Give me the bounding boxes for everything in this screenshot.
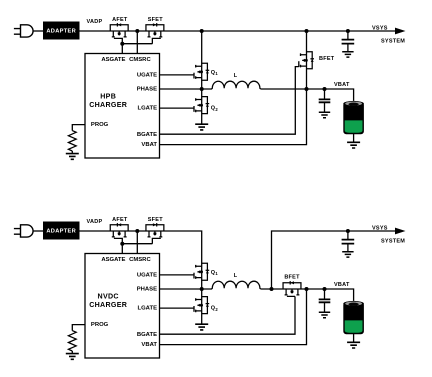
wire UGATE	[160, 274, 195, 276]
wire resistor to ground	[71, 151, 73, 153]
svg-text:Q1: Q1	[211, 70, 219, 76]
svg-text:SYSTEM: SYSTEM	[381, 38, 405, 44]
wire Q2 drain to ground	[201, 89, 203, 124]
svg-text:UGATE: UGATE	[137, 272, 157, 278]
wire LGATE	[160, 307, 195, 309]
wire cap to ground	[347, 44, 349, 52]
node VSYS cap junction	[346, 229, 350, 233]
inductor L	[202, 281, 261, 289]
AC plug	[14, 25, 33, 37]
wire resistor to ground	[71, 351, 73, 353]
resistor R1 PROG	[68, 131, 76, 151]
node CMSRC junction	[135, 229, 139, 233]
wire cap to ground	[347, 244, 349, 252]
ground battery	[347, 342, 360, 348]
ground resistor	[66, 154, 79, 160]
ground battery	[347, 142, 360, 148]
battery BT2	[343, 301, 364, 334]
charger block U2 NVDC	[85, 254, 160, 359]
svg-text:ASGATE: ASGATE	[101, 257, 125, 263]
svg-text:VSYS: VSYS	[372, 25, 388, 31]
wire VBAT rail through BFET	[261, 289, 354, 301]
wire VSYS cap lead	[347, 231, 349, 240]
transistor SFET	[146, 223, 164, 237]
svg-text:SYSTEM: SYSTEM	[381, 238, 405, 244]
ADAPTER block	[43, 222, 80, 240]
wire VBAT cap lead	[324, 289, 326, 299]
svg-text:VADP: VADP	[87, 219, 103, 225]
svg-text:CHARGER: CHARGER	[89, 301, 127, 309]
svg-text:BFET: BFET	[284, 275, 300, 281]
wire BGATE to BFET gate	[160, 296, 296, 334]
svg-text:PHASE: PHASE	[137, 287, 157, 293]
svg-text:CMSRC: CMSRC	[129, 257, 151, 263]
wire VBAT cap lead	[324, 89, 326, 99]
svg-text:PHASE: PHASE	[137, 87, 157, 93]
svg-text:VBAT: VBAT	[334, 82, 350, 88]
transistor BFET	[299, 52, 314, 69]
svg-text:BFET: BFET	[319, 56, 335, 62]
node CMSRC junction	[135, 29, 139, 33]
charger block U1 HPB	[85, 54, 160, 159]
wire main rail VADP to VSYS	[80, 30, 396, 32]
wire battery to ground	[353, 134, 355, 142]
node rail to BFET	[305, 29, 309, 33]
capacitor C4 VBAT	[319, 299, 331, 302]
node VBAT cap junction	[323, 87, 327, 91]
svg-text:PROG: PROG	[91, 322, 109, 328]
wire plug to adapter	[33, 230, 43, 232]
svg-text:L: L	[234, 273, 238, 279]
node ASGATE junction	[120, 42, 124, 46]
svg-text:UGATE: UGATE	[137, 72, 157, 78]
wire gate tie AFET/SFET to ASGATE	[114, 38, 161, 53]
node PHASE junction	[200, 287, 204, 291]
wire PROG to resistor	[72, 325, 85, 331]
transistor BFET	[283, 281, 301, 295]
wire gate tie AFET/SFET to ASGATE	[114, 238, 161, 253]
wire VBAT rail	[261, 89, 354, 101]
svg-text:Q2: Q2	[211, 106, 219, 112]
svg-text:VBAT: VBAT	[334, 282, 350, 288]
svg-text:VADP: VADP	[87, 19, 103, 25]
svg-text:CHARGER: CHARGER	[89, 101, 127, 109]
battery BT1	[343, 101, 364, 134]
svg-text:HPB: HPB	[100, 93, 116, 101]
wire PHASE	[160, 288, 202, 290]
capacitor C2 VBAT	[319, 99, 331, 102]
wire cap to ground	[324, 102, 326, 112]
wire PHASE	[160, 88, 202, 90]
ground VBAT cap	[319, 312, 330, 317]
svg-text:Q1: Q1	[211, 270, 219, 276]
wire CMSRC riser	[136, 231, 138, 254]
ADAPTER block	[43, 22, 80, 40]
ground VSYS cap	[342, 52, 353, 57]
node rail to Q1	[200, 29, 204, 33]
svg-text:NVDC: NVDC	[98, 293, 119, 301]
wire main rail to Q1	[80, 231, 202, 289]
node VSYS cap junction	[346, 29, 350, 33]
svg-text:SFET: SFET	[148, 17, 163, 23]
transistor Q1	[194, 263, 209, 280]
wire UGATE	[160, 74, 195, 76]
wire CMSRC riser	[136, 31, 138, 54]
transistor AFET	[110, 223, 128, 237]
AC plug	[14, 225, 33, 237]
svg-text:CMSRC: CMSRC	[129, 57, 151, 63]
wire BFET drain-source VSYS to VBAT	[306, 31, 308, 89]
transistor SFET	[146, 23, 164, 37]
node VBAT cap junction	[323, 287, 327, 291]
transistor AFET	[110, 23, 128, 37]
node BFET source VBAT	[305, 87, 309, 91]
svg-text:PROG: PROG	[91, 122, 109, 128]
wire VSYS riser	[272, 231, 396, 289]
wire LGATE	[160, 107, 195, 109]
wire VBAT pin to VBAT rail	[160, 89, 307, 145]
node inductor BFET VSYS junction	[270, 287, 274, 291]
svg-text:SFET: SFET	[148, 217, 163, 223]
svg-text:LGATE: LGATE	[137, 306, 157, 312]
wire VSYS cap lead	[347, 31, 349, 40]
transistor Q2	[194, 297, 209, 314]
ground Q2 source	[195, 324, 208, 330]
capacitor C1 VSYS	[342, 40, 355, 44]
svg-text:LGATE: LGATE	[137, 106, 157, 112]
capacitor C3 VSYS	[342, 240, 355, 244]
svg-text:VBAT: VBAT	[141, 342, 157, 348]
svg-text:Q2: Q2	[211, 306, 219, 312]
ground Q2 source	[195, 124, 208, 130]
svg-text:L: L	[234, 73, 238, 79]
wire Q2 drain to ground	[201, 289, 203, 324]
ground resistor	[66, 354, 79, 360]
ground VSYS cap	[342, 252, 353, 257]
svg-text:VSYS: VSYS	[372, 225, 388, 231]
svg-text:ADAPTER: ADAPTER	[46, 229, 76, 235]
arrow VSYS output	[395, 228, 406, 235]
node ASGATE junction	[120, 242, 124, 246]
wire VBAT pin to VBAT rail	[160, 289, 307, 345]
inductor L	[202, 81, 261, 89]
svg-text:VBAT: VBAT	[141, 142, 157, 148]
transistor Q2	[194, 97, 209, 114]
resistor R2 PROG	[68, 331, 76, 351]
wire cap to ground	[324, 302, 326, 312]
wire plug to adapter	[33, 30, 43, 32]
node PHASE junction	[200, 87, 204, 91]
svg-text:AFET: AFET	[112, 17, 128, 23]
wire BGATE to BFET gate	[160, 67, 299, 135]
svg-text:BGATE: BGATE	[137, 132, 157, 138]
node BFET source VBAT	[305, 287, 309, 291]
transistor Q1	[194, 63, 209, 80]
wire Q1 drain drop	[201, 31, 203, 89]
arrow VSYS output	[395, 28, 406, 35]
wire battery to ground	[353, 334, 355, 342]
svg-text:BGATE: BGATE	[137, 332, 157, 338]
svg-text:AFET: AFET	[112, 217, 128, 223]
wire PROG to resistor	[72, 125, 85, 131]
svg-text:ASGATE: ASGATE	[101, 57, 125, 63]
svg-text:ADAPTER: ADAPTER	[46, 29, 76, 35]
ground VBAT cap	[319, 112, 330, 117]
